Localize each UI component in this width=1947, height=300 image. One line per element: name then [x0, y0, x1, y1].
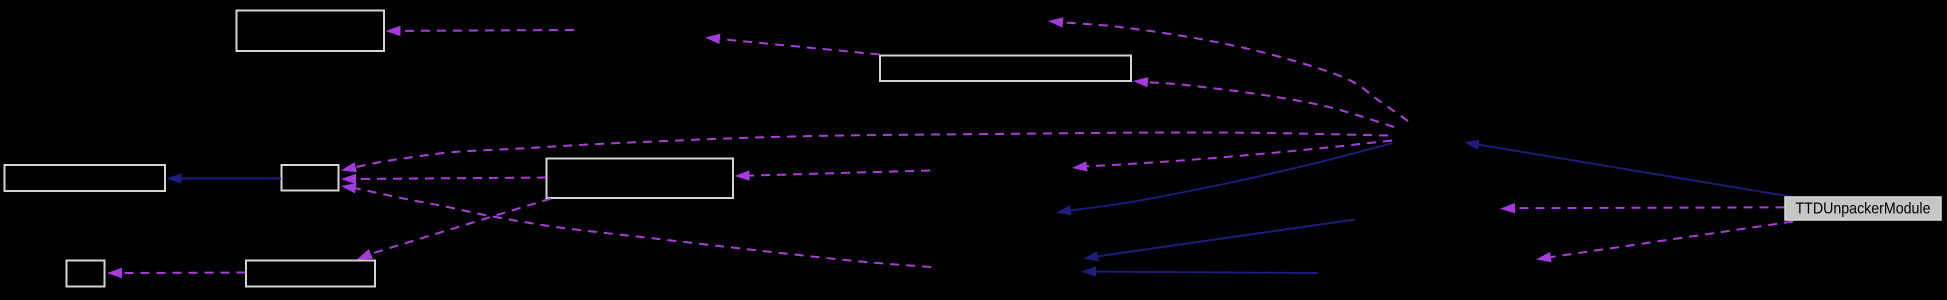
arrowhead into box G top edge — [357, 249, 373, 260]
arrowhead pointing to hidden node X2 (top) — [1048, 17, 1063, 27]
arrowhead pointing to hidden node X10 — [1536, 252, 1552, 262]
dashed curve from hidden hub X4 to hidden node X3 — [1087, 141, 1392, 167]
dashed edge from hidden node X1 to box A — [401, 29, 575, 32]
blue arrowhead (bottom middle) — [1081, 266, 1096, 276]
node box A (top-left, hidden label) — [237, 11, 385, 52]
arrowhead into box F right edge — [107, 268, 122, 278]
dashed edge from hidden node X3 to box E — [750, 171, 931, 176]
arrowhead into box B bottom-right corner — [1133, 77, 1148, 87]
long dashed curve from hidden hub X4 to hidden node X2 — [1063, 22, 1408, 121]
dashed curve from hidden hub X4 to box B — [1148, 82, 1394, 127]
arrowhead into box D right edge (lower) — [341, 183, 357, 193]
node box G (bottom, hidden label) — [246, 261, 375, 287]
node box C (mid-left, hidden label) — [5, 165, 166, 191]
arrowhead into box D right edge (upper) — [341, 162, 357, 172]
blue arrowhead pointing to hidden node X5 — [1056, 205, 1072, 215]
dashed edge from box G to box F — [122, 272, 246, 275]
node TTDUnpackerModule (main node) — [1785, 197, 1941, 220]
node box F (bottom small, hidden label) — [67, 261, 105, 287]
arrowhead into box D right edge (middle) — [341, 174, 356, 184]
long dashed curve from hidden hub X4 to box D — [356, 132, 1388, 167]
dashed edge from box B top-left corner — [720, 39, 880, 55]
blue curve from hidden hub X4 to hidden node X5 — [1071, 143, 1393, 210]
arrowhead pointing to hidden node X9 — [1500, 203, 1515, 213]
blue arrowhead into hidden hub X4 — [1464, 140, 1480, 150]
node box B (top-middle, hidden label) — [880, 56, 1131, 82]
arrowhead into box A right edge — [386, 26, 401, 36]
dashed edge from box E left edge to box D — [356, 178, 546, 180]
arrowhead pointing to hidden node X3 — [1072, 161, 1088, 171]
blue inheritance edge from box D to box C — [182, 178, 282, 180]
arrowhead into box E right edge — [735, 170, 750, 180]
blue edge from TTDUnpackerModule up to hidden hub X4 — [1479, 145, 1796, 198]
dashed curve from hidden node X11 up to box D — [356, 188, 931, 267]
svg-text:TTDUnpackerModule: TTDUnpackerModule — [1796, 201, 1931, 218]
blue arrowhead into box C right edge — [167, 173, 182, 183]
node box E (middle, hidden label) — [547, 159, 734, 199]
dashed edge from TTDUnpackerModule bottom to hidden node X10 — [1551, 222, 1793, 258]
blue horizontal edge from hidden node X7 — [1096, 272, 1318, 273]
dashed edge from TTDUnpackerModule to hidden node X9 — [1515, 206, 1785, 209]
node box D (small mid, hidden label) — [282, 165, 339, 191]
blue edge from hidden node X8 down-left — [1098, 220, 1355, 257]
arrowhead of edge from box B (points to hidden node X1) — [705, 34, 720, 44]
dashed edge from box E bottom-left corner to box G — [371, 199, 551, 254]
blue arrowhead (lower middle) — [1083, 251, 1099, 261]
